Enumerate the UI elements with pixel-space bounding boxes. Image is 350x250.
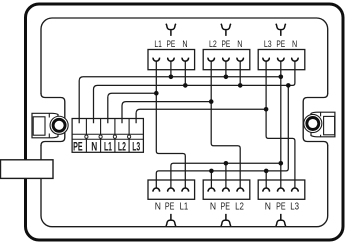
wire N stem top block2 (239, 61, 241, 85)
contact L2 (237, 188, 243, 192)
junction dot N bottom3 (264, 169, 269, 174)
contact N (263, 188, 269, 192)
svg-text:PE: PE (167, 39, 176, 49)
svg-text:L2: L2 (235, 200, 244, 212)
contact L1 (153, 58, 159, 62)
svg-text:PE: PE (165, 200, 175, 212)
junction dot L3 (264, 107, 269, 112)
svg-text:PE: PE (276, 200, 286, 212)
wire L1 vertical top1 to bottom1 (156, 61, 185, 188)
outgoing feeder symbol (221, 24, 231, 36)
contact L1 (182, 188, 188, 192)
outgoing feeder symbol (166, 24, 176, 36)
svg-text:N: N (155, 200, 161, 212)
wire PE stem bottom block2 (225, 163, 227, 188)
svg-text:N: N (182, 39, 187, 49)
wire N net: strip N up, N bus, corner into top3 N (94, 61, 295, 123)
junction dot PE top3 (279, 75, 284, 80)
terminal strip X1 (72, 119, 143, 154)
contact N (292, 58, 298, 62)
contact N (182, 58, 188, 62)
left lug bay wall opening (40, 94, 65, 146)
junction dot PE bottom3 (279, 161, 284, 166)
contact L2 (208, 58, 214, 62)
junction dot N top1 (183, 83, 188, 88)
junction dot PE top2 (224, 75, 229, 80)
wire L2 vertical top2 to bottom2 (211, 61, 240, 188)
strip test ports (85, 135, 88, 138)
contact PE (223, 58, 229, 62)
outgoing feeder symbol (276, 214, 286, 226)
wire PE stem top block1 (170, 61, 172, 77)
wire N stem bottom block3 (265, 171, 267, 188)
svg-text:L2: L2 (118, 139, 126, 153)
svg-text:L2: L2 (209, 39, 217, 49)
contact L3 (263, 58, 269, 62)
contact PE (223, 188, 229, 192)
contact L3 (292, 188, 298, 192)
cable entry grommet (1, 160, 54, 179)
svg-text:PE: PE (73, 139, 83, 153)
wire L3 from strip to junction (136, 109, 266, 123)
wire N feed down and bottom N bus into bottom1 N (156, 85, 288, 187)
junction dot PE top1 (169, 75, 174, 80)
contact PE (278, 188, 284, 192)
svg-text:L1: L1 (180, 200, 189, 212)
top block 3 (258, 24, 305, 70)
wire L3 vertical top3 to bottom3 (266, 61, 295, 188)
contact N (237, 58, 243, 62)
enclosure inner wall (41, 18, 328, 227)
svg-text:N: N (91, 139, 97, 153)
contact PE (168, 188, 174, 192)
wire N stem top block1 (184, 61, 186, 85)
wire N stem bottom block2 (210, 171, 212, 188)
junction dot L2 (209, 99, 214, 104)
svg-text:N: N (237, 39, 242, 49)
svg-text:PE: PE (222, 39, 231, 49)
top block 2 (203, 24, 250, 70)
svg-text:L1: L1 (104, 139, 112, 153)
svg-text:PE: PE (276, 39, 285, 49)
junction dot N bottom2 (209, 169, 214, 174)
wire L1 from strip to junction (108, 93, 157, 123)
outgoing feeder symbol (221, 214, 231, 226)
contact PE (278, 58, 284, 62)
top block 1 (148, 24, 195, 70)
contact N (208, 188, 214, 192)
left mounting lug (32, 113, 68, 138)
svg-text:L3: L3 (290, 200, 299, 212)
junction dot N top2 (238, 83, 243, 88)
wire PE stem top block2 (225, 61, 227, 77)
wire PE net: strip PE up and PE bus to top row (79, 77, 281, 124)
contact N (153, 188, 159, 192)
contact PE (168, 58, 174, 62)
outgoing feeder symbol (166, 214, 176, 226)
svg-text:L1: L1 (154, 39, 162, 49)
junction dot N feed (286, 83, 291, 88)
svg-text:L3: L3 (264, 39, 272, 49)
wire PE bottom bus (171, 163, 281, 188)
svg-text:PE: PE (221, 200, 231, 212)
svg-text:N: N (210, 200, 216, 212)
junction dot L1 (154, 91, 159, 96)
junction dot PE bottom2 (224, 161, 229, 166)
svg-text:N: N (265, 200, 271, 212)
wire L2 from strip to junction (122, 102, 211, 124)
bottom block 2 (203, 180, 250, 226)
right mounting lug (304, 112, 335, 137)
wire PE feed vertical top3 to bottom3 (280, 61, 282, 188)
right lug bay wall opening (303, 94, 329, 146)
svg-text:N: N (292, 39, 297, 49)
bottom block 3 (258, 180, 305, 226)
outgoing feeder symbol (276, 24, 286, 36)
bottom block 1 (148, 180, 195, 226)
svg-text:L3: L3 (132, 139, 140, 153)
